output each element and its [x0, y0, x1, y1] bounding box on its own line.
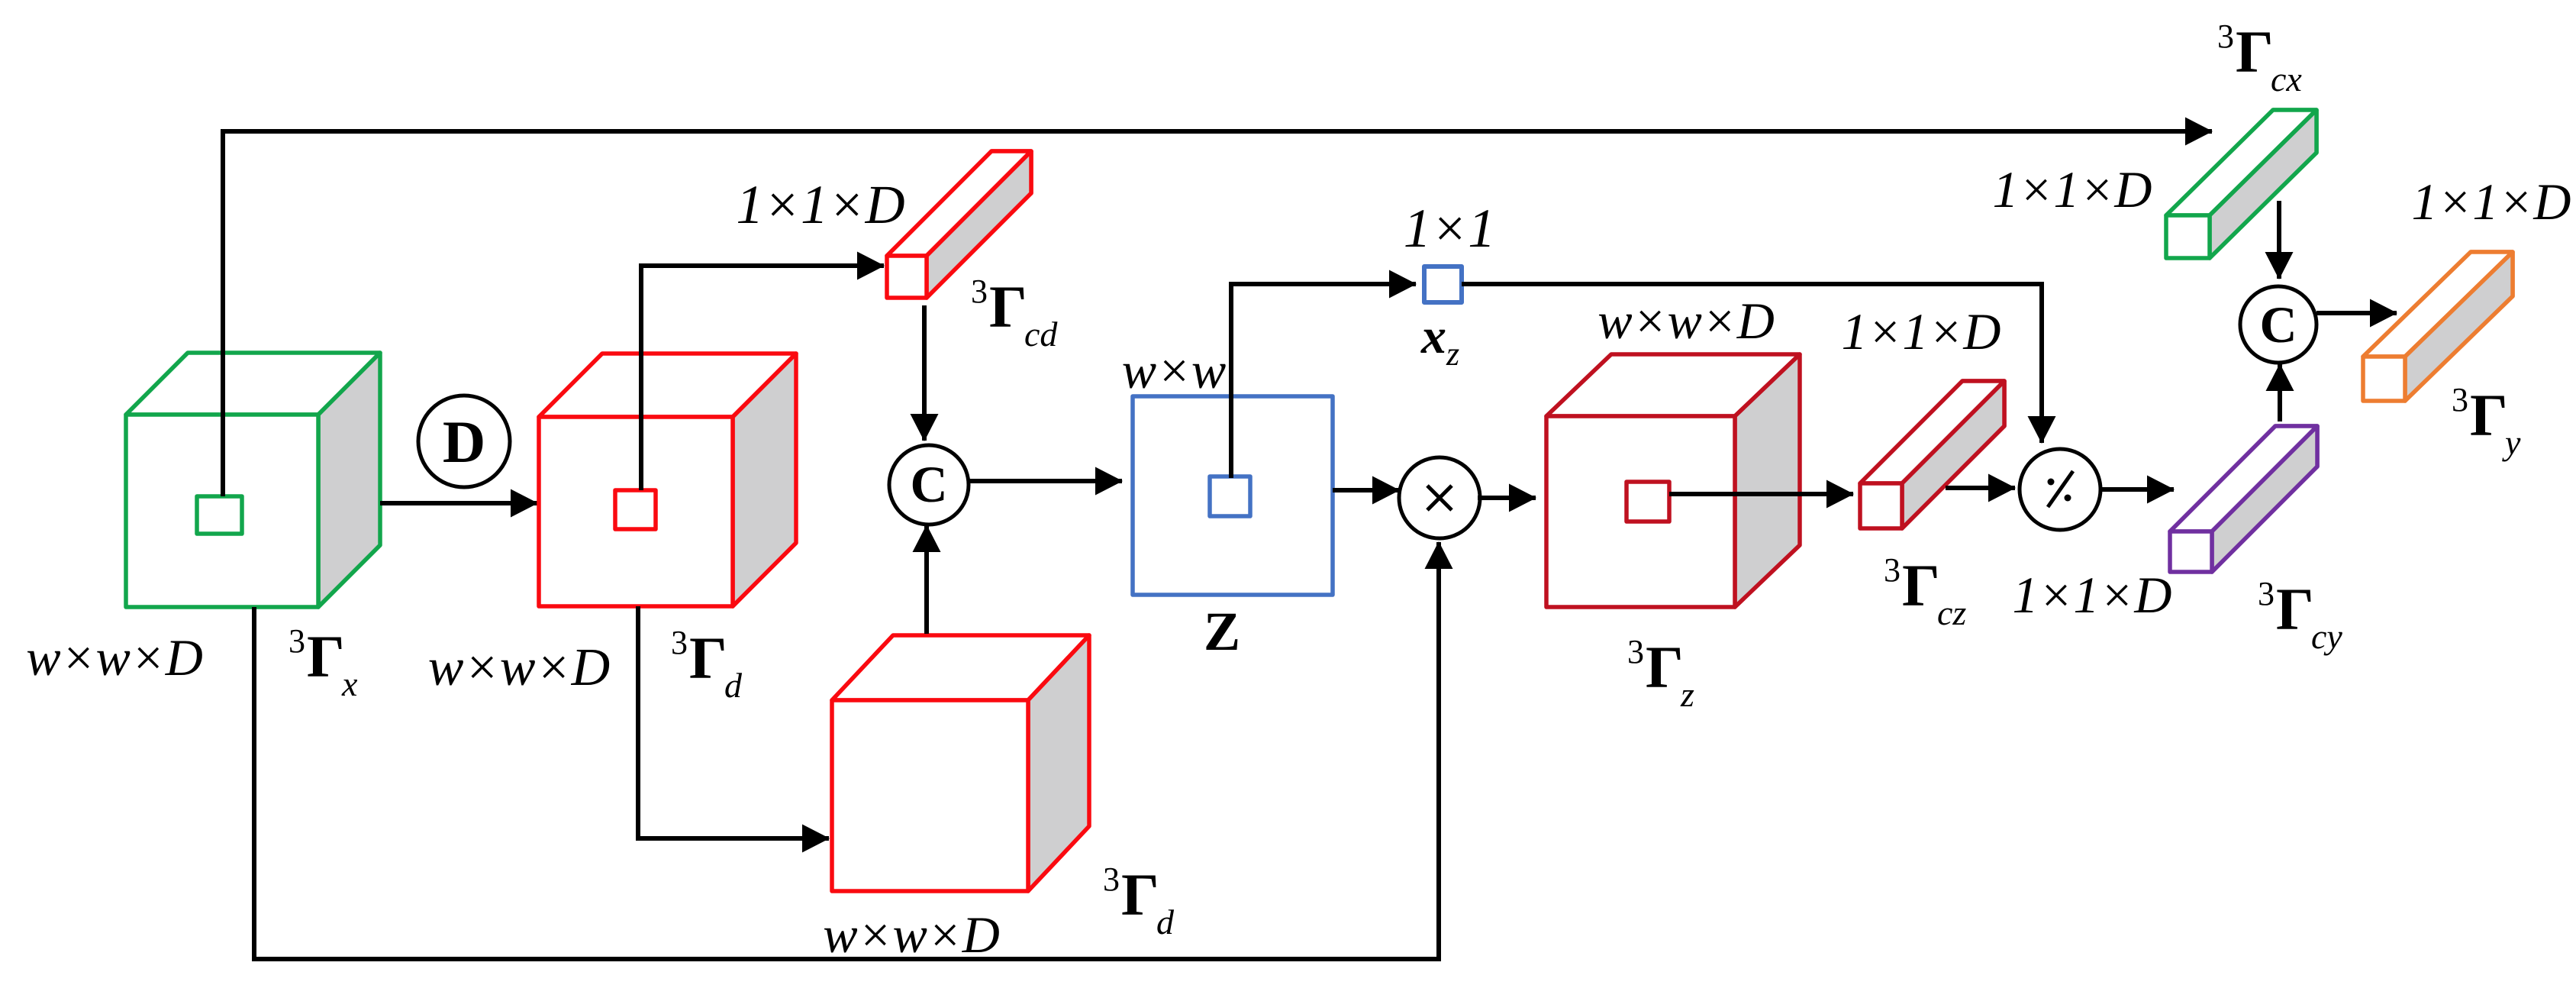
input cube 3-Gamma-x (green, w x w x D) [126, 353, 380, 607]
pixel square inside green cube [197, 496, 242, 534]
arrow divide to bar 3-Gamma-cy [2100, 487, 2174, 492]
svg-text:1×1×D: 1×1×D [2412, 173, 2571, 231]
bar 3-Gamma-cx (green, 1 x 1 x D) [2166, 110, 2316, 258]
svg-text:w×w×D: w×w×D [26, 628, 203, 686]
label w x w for Z [1122, 341, 1227, 399]
label 3-Gamma-cy [2258, 575, 2342, 656]
arrow concat C to Z [968, 479, 1122, 483]
top wire green cube pixel to bar 3-Gamma-cx [223, 131, 2212, 496]
wire red cube bottom to lower red cube [638, 606, 829, 838]
wire x_z to divide circle [1462, 284, 2042, 443]
label 1 x 1 x D for bar cd [736, 174, 904, 235]
wire Z pixel to x_z [1231, 284, 1416, 478]
arrow cube z pixel to bar 3-Gamma-cz [1669, 492, 1853, 496]
label Z [1204, 601, 1240, 662]
svg-text:w×w×D: w×w×D [1598, 292, 1775, 350]
arrow lower cube up to concat C [924, 525, 929, 634]
pixel square inside red cube [615, 490, 656, 529]
label 3-Gamma-z [1627, 633, 1694, 714]
label w x w x D for red cube [428, 638, 610, 697]
matrix Z (blue, w x w) [1133, 396, 1333, 595]
svg-text:1×1×D: 1×1×D [1993, 160, 2152, 218]
feedback wire green cube bottom to multiply [254, 542, 1439, 959]
label 1 x 1 x D for bar cz [1842, 302, 2001, 360]
operator circle D (dilation) [418, 396, 510, 487]
operator circle multiply [1399, 457, 1480, 538]
label 3-Gamma-x [289, 622, 358, 703]
svg-text:1×1: 1×1 [1404, 198, 1496, 259]
arrow multiply to cube 3-Gamma-z [1478, 496, 1536, 500]
arrow concat C2 to bar 3-Gamma-y [2316, 311, 2397, 315]
svg-text:1×1×D: 1×1×D [1842, 302, 2001, 360]
svg-text:Z: Z [1204, 601, 1240, 662]
svg-text:w×w×D: w×w×D [823, 906, 1000, 964]
label w x w x D for cube z [1598, 292, 1775, 350]
pixel square inside cube 3-Gamma-z [1627, 482, 1669, 522]
svg-text:C: C [2259, 295, 2297, 354]
label 3-Gamma-y [2452, 381, 2521, 462]
lower cube 3-Gamma-d (red, w x w x D) [832, 635, 1089, 891]
bar 3-Gamma-cd (red, 1 x 1 x D) [887, 151, 1031, 298]
bar 3-Gamma-y (orange, 1 x 1 x D) [2363, 252, 2513, 401]
arrow green cube to red cube [380, 501, 537, 505]
arrow bar cy up to concat C2 [2278, 364, 2282, 421]
arrow bar cz to divide circle [1946, 486, 2015, 490]
label 3-Gamma-cx [2217, 18, 2302, 98]
operator circle divide [2020, 449, 2100, 530]
operator circle C concat 2 [2240, 286, 2316, 363]
bar 3-Gamma-cz (dark red, 1 x 1 x D) [1860, 381, 2004, 528]
wire red cube pixel to bar 3-Gamma-cd [641, 266, 884, 490]
pixel square inside Z [1210, 476, 1250, 516]
arrow bar cd down to concat C [922, 305, 927, 441]
label 1 x 1 x D below divide [2013, 566, 2172, 624]
svg-text:1×1×D: 1×1×D [736, 174, 904, 235]
label 1 x 1 x D for bar y [2412, 173, 2571, 231]
svg-text:1×1×D: 1×1×D [2013, 566, 2172, 624]
arrow Z to multiply [1333, 488, 1399, 492]
label 3-Gamma-d [671, 624, 743, 705]
svg-text:w×w: w×w [1122, 341, 1227, 399]
svg-text:w×w×D: w×w×D [428, 638, 610, 697]
label 1 x 1 for x_z [1404, 198, 1496, 259]
label 3-Gamma-cz [1884, 551, 1966, 632]
bar 3-Gamma-cy (purple, 1 x 1 x D) [2170, 426, 2317, 572]
pixel x_z (blue, 1 x 1) [1424, 266, 1462, 302]
label 3-Gamma-cd [971, 273, 1058, 354]
label w x w x D for lower cube [823, 906, 1000, 964]
label w x w x D for green cube [26, 628, 203, 686]
operator circle C concat 1 [889, 445, 969, 525]
arrow bar cx down to concat C2 [2277, 201, 2281, 279]
label 1 x 1 x D for bar cx [1993, 160, 2152, 218]
cube 3-Gamma-z (dark red, w x w x D) [1546, 354, 1800, 607]
svg-text:D: D [443, 409, 485, 475]
cube 3-Gamma-d (red, w x w x D) [539, 354, 796, 606]
label x_z [1420, 308, 1459, 373]
label 3-Gamma-d lower [1103, 861, 1175, 941]
svg-text:C: C [910, 455, 947, 513]
